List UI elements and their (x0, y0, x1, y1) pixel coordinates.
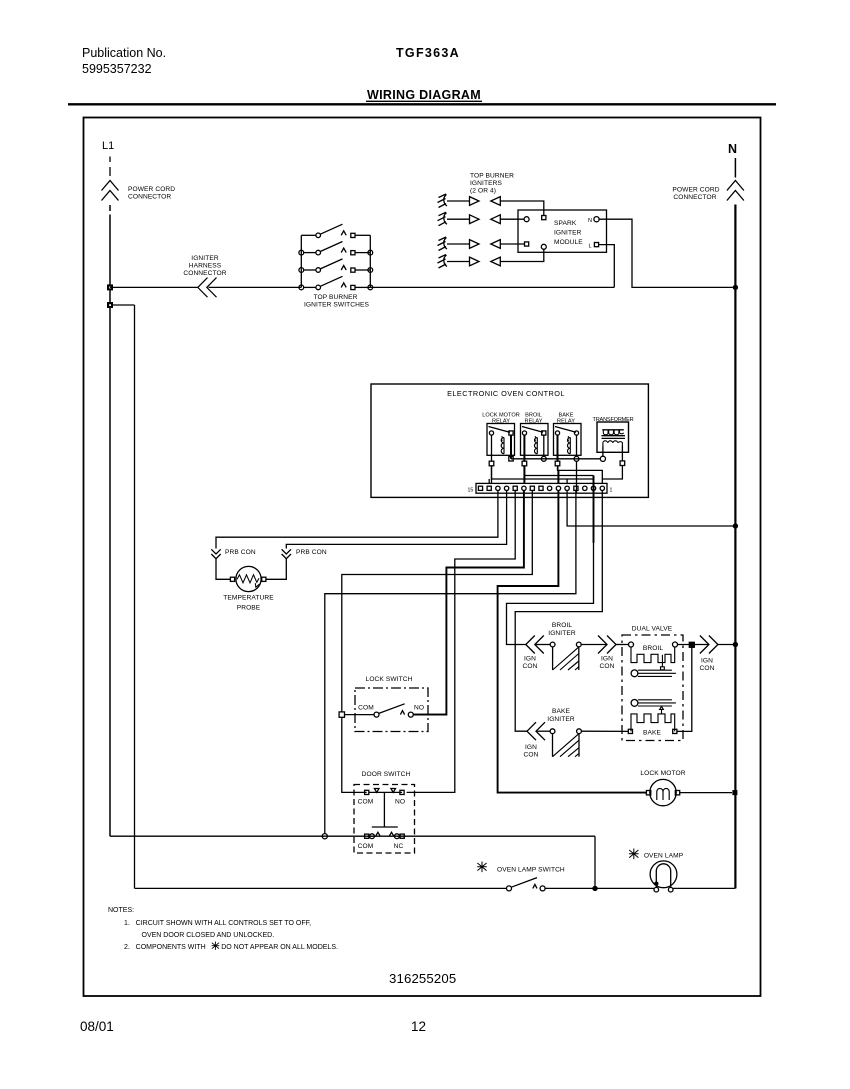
label oven lamp (644, 853, 684, 860)
svg-text:OVEN LAMP SWITCH: OVEN LAMP SWITCH (497, 867, 565, 874)
svg-text:BAKE: BAKE (643, 730, 661, 737)
label BROIL valve (643, 645, 664, 652)
svg-text:IGN: IGN (701, 658, 713, 665)
wire K1L drop to strip (489, 466, 491, 484)
broil igniter E1 (550, 642, 581, 670)
lock switch pole (374, 704, 413, 717)
door switch bottom pole (365, 832, 405, 838)
door switch link (372, 792, 398, 827)
terminal relay K2 coil (522, 461, 527, 466)
label bake relay (557, 413, 575, 425)
igniter harness connector (198, 278, 217, 298)
relay K2 broil relay (521, 424, 549, 462)
label power cord connector left (128, 186, 175, 201)
wire to dual valve broil (616, 644, 629, 646)
label door switch NC (394, 843, 404, 850)
label IGN CON bake (524, 744, 539, 759)
svg-text:CONNECTOR: CONNECTOR (183, 270, 226, 277)
wire K2L thick drop to terminal 10 (523, 466, 525, 484)
temperature probe RT1 (230, 566, 266, 591)
wire igniter 2 to module (500, 218, 524, 220)
terminal strip pins (478, 486, 604, 490)
dual valve box (622, 635, 683, 741)
label IGN CON broil mid (600, 656, 615, 671)
label door switch COM top (358, 799, 374, 806)
svg-text:1: 1 (610, 488, 613, 494)
wire L1 dashed lead (109, 157, 111, 177)
wire lamp row left (135, 887, 507, 889)
svg-text:PROBE: PROBE (237, 605, 261, 612)
svg-text:HARNESS: HARNESS (189, 263, 222, 270)
svg-text:TOP BURNER: TOP BURNER (314, 294, 358, 301)
wire transformer right to terminal 1 (602, 466, 622, 480)
wire main row to spark module L drop (370, 286, 614, 288)
wire module L to main row (599, 245, 615, 288)
publication number heading (82, 46, 166, 76)
wire N lead (734, 158, 736, 178)
wire terminal 6 to lock motor (498, 491, 647, 793)
asterisk oven lamp (629, 849, 639, 860)
label notes (108, 907, 338, 951)
svg-text:L: L (589, 244, 592, 250)
dual valve bake coil (628, 706, 677, 733)
junction lock switch COM (339, 712, 344, 717)
igniter switch row 1 (301, 224, 370, 237)
svg-text:OVEN LAMP: OVEN LAMP (644, 853, 684, 860)
svg-text:WIRING DIAGRAM: WIRING DIAGRAM (367, 88, 481, 102)
svg-text:CONNECTOR: CONNECTOR (673, 194, 716, 201)
svg-text:COM: COM (358, 799, 374, 806)
wire terminal 9 to lock switch COM (342, 491, 533, 793)
dual valve broil actuator (631, 670, 676, 677)
label terminal 1 (610, 488, 613, 494)
wire terminal 2 to broil igniter (507, 491, 594, 645)
svg-text:IGN: IGN (525, 744, 537, 751)
top burner igniter 3 (438, 237, 501, 251)
wire probe right lead (266, 559, 286, 580)
svg-text:NC: NC (394, 843, 404, 850)
wire main row harness to switch bank (209, 286, 302, 288)
label top burner igniter switches (304, 294, 369, 309)
svg-text:TEMPERATURE: TEMPERATURE (223, 595, 274, 602)
wire terminal 12 to probe right (286, 491, 506, 549)
label IGN CON broil left (523, 656, 538, 671)
junction bus K3 (574, 456, 579, 461)
junction bus K2 (541, 456, 546, 461)
terminal module L (589, 244, 592, 250)
left bus (300, 235, 302, 287)
connector IGN CON right (700, 636, 718, 654)
door switch S2 box (354, 785, 415, 854)
relay K1 lock motor relay (487, 424, 515, 462)
junction neutral broil row (733, 642, 738, 647)
connector probe left PRB CON (211, 549, 220, 558)
junction broil row riser (689, 642, 694, 647)
label spark igniter module (554, 220, 583, 246)
title WIRING DIAGRAM (367, 88, 481, 102)
wire K3 coil to terminal 1 (558, 466, 603, 484)
svg-text:POWER CORD: POWER CORD (128, 186, 175, 193)
svg-text:(2 OR 4): (2 OR 4) (470, 188, 496, 195)
wire lamp row right (673, 887, 735, 889)
wire broil igniter left lead (536, 644, 550, 646)
terminal module row3 (525, 242, 529, 246)
igniter switch row 3 (299, 259, 373, 273)
asterisk oven lamp switch (477, 862, 487, 873)
top burner igniter switches bank (301, 235, 370, 287)
terminal module top (542, 216, 546, 220)
wire door NC drop to lamp row (594, 836, 596, 888)
svg-text:IGNITER: IGNITER (548, 630, 576, 637)
wire IGN CON right to neutral (718, 644, 736, 646)
wire K3L thick drop to terminal 6 (557, 466, 560, 484)
svg-text:PRB CON: PRB CON (296, 549, 327, 556)
label terminal 15 (468, 488, 474, 494)
svg-text:BAKE: BAKE (552, 708, 570, 715)
label IGN CON right (700, 658, 715, 673)
wire terminal 13 to probe left (216, 491, 498, 549)
svg-text:CON: CON (523, 663, 538, 670)
svg-text:MODULE: MODULE (554, 239, 583, 246)
wire L1 drop (109, 205, 111, 836)
wire terminal 11 to door switch NO (407, 491, 516, 793)
label bake igniter (547, 708, 575, 723)
svg-text:SPARK: SPARK (554, 220, 577, 227)
svg-text:NO: NO (414, 705, 424, 712)
svg-text:316255205: 316255205 (389, 971, 456, 986)
wire igniter 3 to module (500, 243, 524, 245)
bake igniter E2 (550, 729, 581, 757)
label door switch (362, 771, 411, 778)
svg-text:N: N (728, 142, 737, 156)
label broil relay (525, 413, 543, 425)
wire main row L1 to harness connector (110, 286, 198, 288)
svg-text:2. COMPONENTS WITH DO: 2. COMPONENTS WITH DO NOT APPEAR ON ALL … (124, 944, 338, 951)
wire terminal 5 stub (566, 479, 568, 483)
svg-text:08/01: 08/01 (80, 1019, 114, 1034)
relay K3 bake relay (554, 424, 582, 462)
svg-text:NOTES:: NOTES: (108, 907, 134, 914)
power cord connector N (727, 181, 744, 201)
junction lamp row (592, 886, 597, 891)
label door switch NO (395, 799, 405, 806)
title underline (366, 100, 482, 102)
power cord connector L1 (102, 181, 119, 201)
wire bake igniter left lead (537, 730, 550, 732)
connector broil igniter left IGN CON (526, 636, 544, 654)
electronic oven control box (371, 384, 648, 497)
svg-text:COM: COM (358, 705, 374, 712)
label power cord connector right (672, 187, 719, 202)
part number 316255205 (389, 971, 456, 986)
node N (728, 142, 737, 156)
junction neutral t5 (733, 523, 738, 528)
wire probe left lead (216, 559, 230, 580)
wire module N to neutral bus (599, 219, 735, 287)
svg-text:COM: COM (358, 843, 374, 850)
label lock motor relay (482, 413, 520, 425)
header rule (68, 103, 776, 105)
terminal module row2 (524, 217, 529, 222)
svg-text:IGN: IGN (601, 656, 613, 663)
label igniter harness connector (183, 255, 226, 277)
label PRB CON left (225, 549, 256, 556)
wire door bottom row from L1 (110, 835, 595, 837)
footer page 12 (411, 1019, 426, 1034)
wire lock motor to neutral (680, 792, 732, 794)
wire K3R to terminal 4 (576, 461, 578, 493)
label top burner igniters (470, 173, 514, 195)
svg-text:IGNITER SWITCHES: IGNITER SWITCHES (304, 302, 369, 309)
svg-text:DUAL VALVE: DUAL VALVE (632, 626, 673, 633)
transformer T1 (597, 422, 629, 461)
dual valve broil coil (629, 642, 678, 670)
model number TGF363A (396, 46, 460, 60)
label oven lamp switch (497, 867, 565, 874)
oven lamp DS1 (650, 861, 677, 892)
lock motor M1 (646, 779, 679, 805)
label lock motor (640, 770, 685, 777)
terminal bus left end (509, 457, 513, 461)
label BAKE valve (643, 730, 661, 737)
label PRB CON right (296, 549, 327, 556)
junction L1 lamp branch (107, 302, 113, 308)
oven lamp switch S3 (507, 878, 546, 891)
svg-text:NO: NO (395, 799, 405, 806)
svg-text:POWER CORD: POWER CORD (672, 187, 719, 194)
wire terminal 5 to neutral (567, 491, 735, 527)
svg-text:IGNITER: IGNITER (191, 255, 219, 262)
svg-text:TOP BURNER: TOP BURNER (470, 173, 514, 180)
terminal module N (588, 218, 592, 224)
label transformer (593, 417, 634, 423)
node L1 (102, 140, 114, 152)
wire N bus (734, 205, 736, 889)
svg-text:5995357232: 5995357232 (82, 62, 152, 76)
svg-text:Publication No.: Publication No. (82, 46, 166, 60)
label electronic oven control (447, 389, 565, 398)
wire igniter 1 to module (500, 201, 544, 216)
svg-text:ELECTRONIC OVEN CONTROL: ELECTRONIC OVEN CONTROL (447, 389, 565, 398)
label dual valve (632, 626, 673, 633)
wire relay bus (511, 458, 600, 460)
terminal relay K1 coil (489, 461, 494, 466)
lock switch S1 box (355, 688, 428, 732)
label door switch COM bottom (358, 843, 374, 850)
wire valve to right connector (678, 644, 709, 646)
connector bake igniter left IGN CON (527, 722, 545, 740)
svg-text:DOOR SWITCH: DOOR SWITCH (362, 771, 411, 778)
terminal relay K3 coil (555, 461, 560, 466)
svg-text:12: 12 (411, 1019, 426, 1034)
spark igniter module U1 (518, 210, 607, 252)
svg-text:PRB CON: PRB CON (225, 549, 256, 556)
top burner igniter 4 (438, 255, 501, 269)
junction door bottom row (322, 834, 327, 839)
connector probe right PRB CON (282, 549, 291, 558)
wire lamp row mid (545, 887, 654, 889)
right bus (369, 235, 371, 287)
lock switch NO lead (413, 714, 446, 716)
diagram border (84, 118, 761, 997)
svg-text:BROIL: BROIL (552, 622, 573, 629)
svg-text:IGNITER: IGNITER (554, 230, 582, 237)
junction neutral lock motor row (732, 790, 737, 795)
svg-text:CONNECTOR: CONNECTOR (128, 194, 171, 201)
wire igniter 4 to module (500, 249, 544, 262)
wire K2 coil to terminal 2 (524, 466, 593, 493)
footer date 08/01 (80, 1019, 114, 1034)
svg-text:N: N (588, 218, 592, 224)
svg-text:IGN: IGN (524, 656, 536, 663)
label broil igniter (548, 622, 576, 637)
asterisk note 2 (212, 942, 220, 950)
igniter switch row 2 (299, 242, 373, 256)
label lock switch COM (358, 705, 374, 712)
top burner igniter 2 (438, 212, 501, 226)
label lock switch (366, 676, 413, 683)
svg-text:TGF363A: TGF363A (396, 46, 460, 60)
terminal transformer secondary right (620, 461, 625, 466)
junction N bus top (733, 285, 738, 290)
terminal strip (476, 483, 607, 493)
svg-text:15: 15 (468, 488, 474, 494)
svg-text:1. CIRCUIT SHOWN WITH ALL CO: 1. CIRCUIT SHOWN WITH ALL CONTROLS SET T… (124, 920, 311, 927)
wire bake valve to junction riser (677, 647, 692, 731)
label temperature probe (223, 595, 274, 612)
svg-text:LOCK MOTOR: LOCK MOTOR (640, 770, 685, 777)
top burner igniter 1 (438, 194, 501, 208)
svg-text:BROIL: BROIL (643, 645, 664, 652)
junction L1 main row (107, 284, 113, 290)
svg-text:CON: CON (524, 752, 539, 759)
label lock switch NO (414, 705, 424, 712)
wire K1 coil to terminal 5 (492, 466, 594, 479)
connector broil igniter right IGN CON (598, 636, 616, 654)
wire broil igniter right lead (581, 644, 607, 646)
wire terminal 10 to lock switch NO (413, 491, 524, 715)
svg-text:L1: L1 (102, 140, 114, 152)
svg-text:OVEN DOOR CLOSED AND UNLOCKED.: OVEN DOOR CLOSED AND UNLOCKED. (142, 932, 275, 939)
wire terminal 4 to door bottom junction (325, 491, 576, 834)
svg-text:IGNITERS: IGNITERS (470, 180, 502, 187)
svg-text:CON: CON (600, 663, 615, 670)
door switch top pole (365, 789, 405, 795)
lock switch COM lead (345, 714, 375, 716)
terminal module bottom (541, 244, 546, 249)
svg-text:IGNITER: IGNITER (547, 716, 575, 723)
junction bus transformer (600, 456, 605, 461)
igniter switch row 4 (299, 276, 373, 290)
wire lamp branch jog (111, 305, 135, 888)
wire terminal 1 to bake igniter (515, 491, 602, 732)
junction oven lamp left leg (654, 882, 658, 886)
wire bake igniter to valve (581, 730, 628, 732)
svg-text:LOCK SWITCH: LOCK SWITCH (366, 676, 413, 683)
svg-text:CON: CON (700, 665, 715, 672)
dual valve bake actuator (631, 700, 676, 707)
